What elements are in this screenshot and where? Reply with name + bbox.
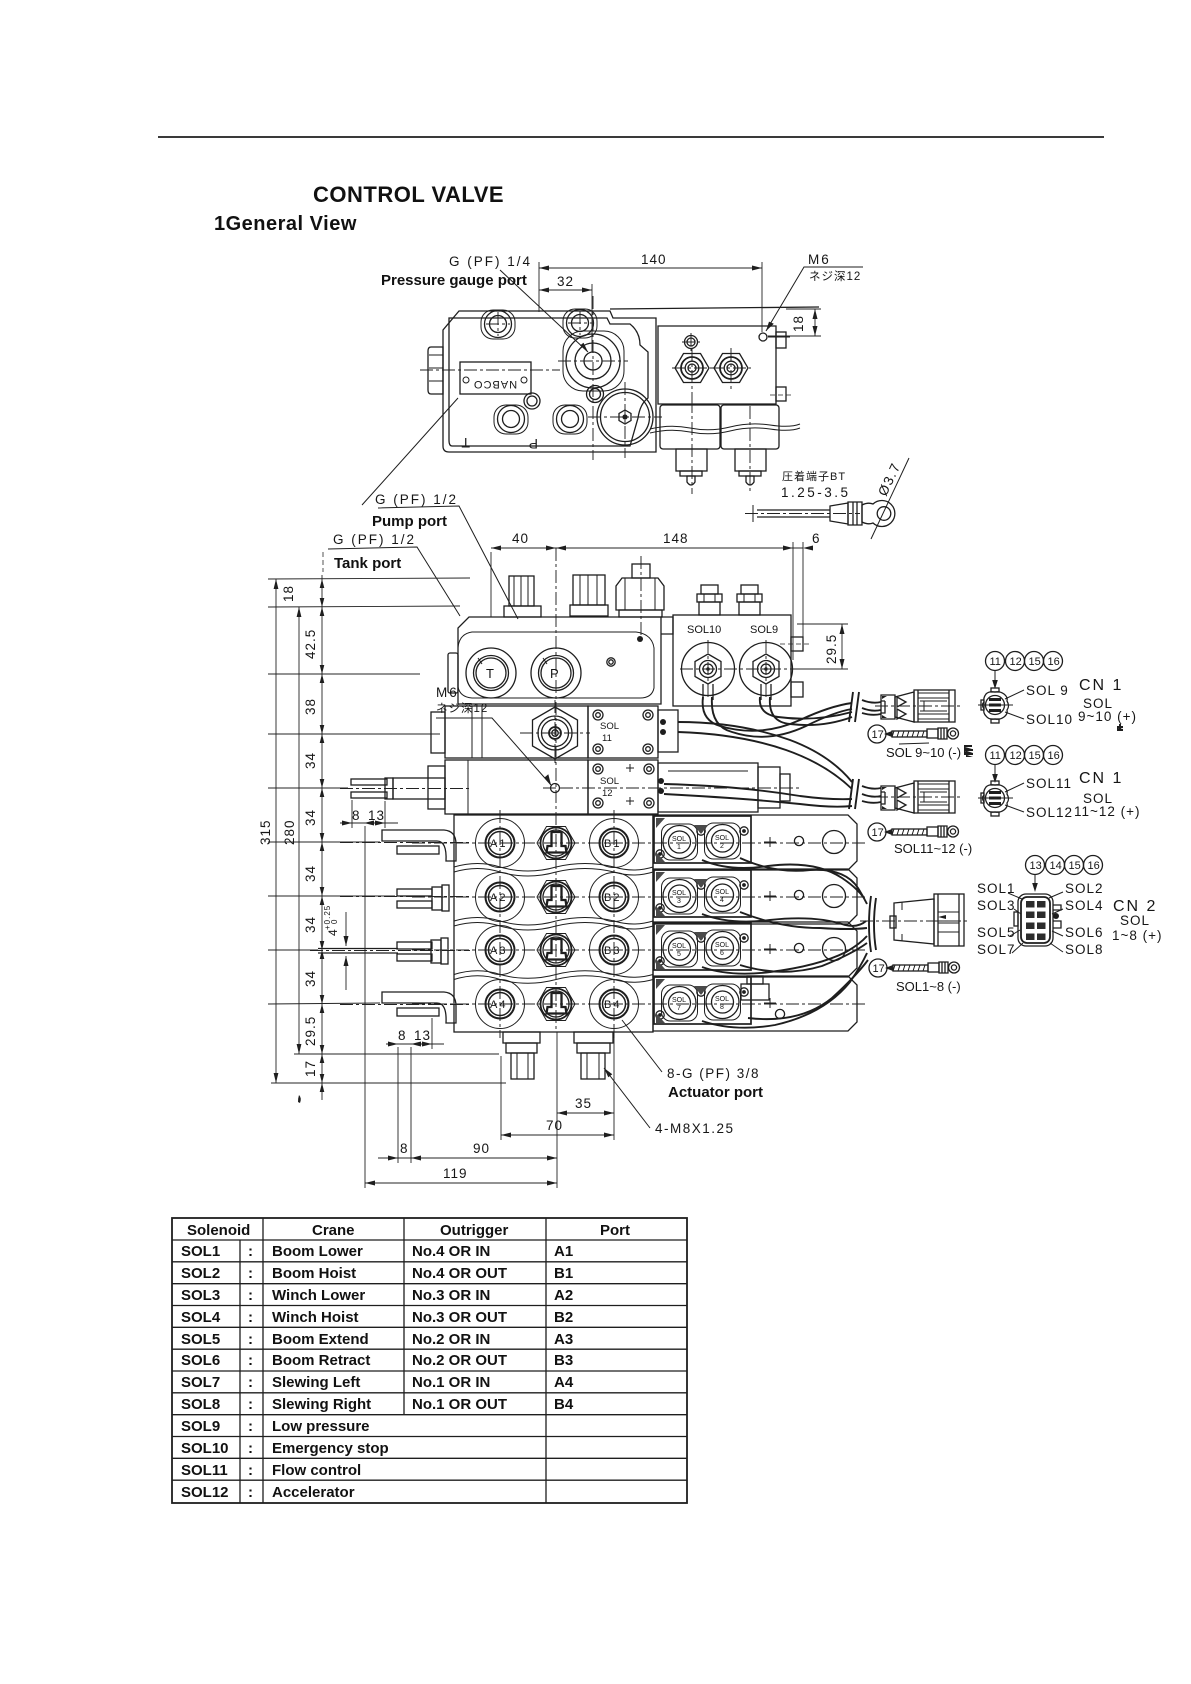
CN2 face <box>1018 894 1053 946</box>
big gear circle <box>597 389 653 445</box>
svg-text:6: 6 <box>812 531 821 546</box>
svg-text:A4: A4 <box>490 999 507 1011</box>
svg-text:No.4 OR IN: No.4 OR IN <box>412 1243 490 1260</box>
svg-text:G (PF) 1/2: G (PF) 1/2 <box>333 532 416 547</box>
svg-text:Winch Lower: Winch Lower <box>272 1287 365 1304</box>
port B1 <box>600 829 629 858</box>
sol10 label leader <box>1005 712 1024 719</box>
svg-text:Boom Retract: Boom Retract <box>272 1352 370 1369</box>
wires sol1/2 to plug3 <box>702 860 864 898</box>
dim 119 <box>365 1182 557 1184</box>
bolt pad top-right <box>563 309 597 338</box>
circled 11 12 15 16 a <box>986 652 1005 671</box>
svg-text:SOL: SOL <box>672 836 686 843</box>
solenoid side body left <box>660 405 720 449</box>
hex port H1 <box>675 354 709 383</box>
dim 4 tol <box>345 912 347 946</box>
svg-text:B3: B3 <box>554 1352 573 1369</box>
svg-text:NABCO: NABCO <box>473 378 517 390</box>
plug3 body <box>894 899 934 944</box>
CN1b face <box>983 785 1009 813</box>
svg-text::: : <box>248 1462 253 1479</box>
svg-text:No.4 OR OUT: No.4 OR OUT <box>412 1265 507 1282</box>
svg-text::: : <box>248 1331 253 1348</box>
CN1a face <box>983 692 1009 720</box>
bolt B2 <box>567 310 594 337</box>
svg-text:CN 1: CN 1 <box>1079 770 1123 787</box>
svg-text:16: 16 <box>1048 656 1060 668</box>
svg-text:9~10 (+): 9~10 (+) <box>1078 709 1137 724</box>
sol6 <box>705 930 741 966</box>
wires sol10 to plug1 <box>703 697 852 731</box>
svg-text:Tank port: Tank port <box>334 555 401 572</box>
svg-text:No.3 OR OUT: No.3 OR OUT <box>412 1309 507 1326</box>
svg-text:T: T <box>486 666 494 681</box>
svg-text:SOL: SOL <box>1120 913 1150 928</box>
bottom stud A <box>503 1032 540 1043</box>
lug b <box>884 829 892 835</box>
svg-text:Boom Hoist: Boom Hoist <box>272 1265 356 1282</box>
svg-text:SOL: SOL <box>672 890 686 897</box>
svg-text:SOL10: SOL10 <box>1026 712 1073 727</box>
svg-text:32: 32 <box>557 274 574 289</box>
M6 target hole <box>551 784 560 793</box>
svg-text:Port: Port <box>600 1222 630 1239</box>
svg-text:15: 15 <box>1069 860 1081 872</box>
svg-text:A4: A4 <box>554 1374 574 1391</box>
svg-text:SOL12: SOL12 <box>1026 805 1073 820</box>
bolt pad bottom-mid <box>553 405 587 434</box>
wires sol9 to plug1 <box>760 697 852 719</box>
rod A3 fork <box>397 942 432 949</box>
wire break marks <box>849 692 859 722</box>
svg-text:1.25-3.5: 1.25-3.5 <box>781 485 851 500</box>
hex fitting sol11 <box>533 707 578 759</box>
top view inner contour <box>449 318 648 446</box>
svg-text:No.1 OR OUT: No.1 OR OUT <box>412 1396 507 1413</box>
plug1 shell <box>914 690 955 722</box>
black dot <box>637 636 643 642</box>
rod A2 fork <box>397 889 432 896</box>
wires sol3/4 to plug3 <box>702 914 866 926</box>
circled 11 12 15 16 b <box>986 746 1005 765</box>
svg-text:11: 11 <box>990 750 1001 762</box>
svg-text:16: 16 <box>1088 860 1100 872</box>
chain arrows <box>320 579 325 1092</box>
gauge leader <box>500 270 588 352</box>
svg-text:A3: A3 <box>490 945 507 957</box>
small circle row2 <box>794 890 803 899</box>
svg-text:29.5: 29.5 <box>303 1016 318 1046</box>
bolt pad top-left <box>481 310 515 339</box>
svg-text:12: 12 <box>602 788 613 799</box>
small circle row1 <box>794 836 803 845</box>
stray tick <box>298 1095 301 1103</box>
dim 8 / 90 <box>378 1157 557 1159</box>
sol block row2 <box>653 869 857 924</box>
svg-text:SOL2: SOL2 <box>181 1265 220 1282</box>
row1 centerline <box>412 842 868 844</box>
bracket wedges row2 <box>656 872 708 916</box>
svg-text:P: P <box>550 666 559 681</box>
sol8 <box>705 984 741 1020</box>
sol12 right extension <box>658 763 758 812</box>
svg-text:12: 12 <box>1010 750 1022 762</box>
circle 17 b <box>868 823 886 841</box>
table outer frame <box>172 1218 687 1503</box>
svg-text:Winch Hoist: Winch Hoist <box>272 1309 359 1326</box>
svg-text:No.3 OR IN: No.3 OR IN <box>412 1287 490 1304</box>
svg-text:34: 34 <box>303 970 318 987</box>
pump leader <box>378 506 518 619</box>
big circle row3 <box>823 938 846 961</box>
actuator leader <box>622 1020 662 1072</box>
svg-text:SOL: SOL <box>672 997 686 1004</box>
dim 18 topview <box>814 309 816 336</box>
M6 leader <box>766 267 863 331</box>
solenoid bracket row2 <box>654 870 751 917</box>
svg-text::: : <box>248 1243 253 1260</box>
main block inner contour <box>458 632 654 698</box>
svg-text:17: 17 <box>873 963 885 975</box>
sol12 row left body <box>445 760 588 814</box>
svg-text:15: 15 <box>1029 656 1041 668</box>
svg-text:140: 140 <box>641 252 667 267</box>
CN2 pins <box>1026 901 1046 940</box>
sol9 stud <box>741 585 758 594</box>
svg-text:A1: A1 <box>490 838 507 850</box>
svg-text:34: 34 <box>303 752 318 769</box>
plug2 body <box>881 786 895 810</box>
centerlines sol9/10 <box>707 640 709 700</box>
svg-text::: : <box>248 1374 253 1391</box>
svg-text:A2: A2 <box>490 892 507 904</box>
svg-text:CN 1: CN 1 <box>1079 677 1123 694</box>
port B1 lobe <box>590 819 639 868</box>
svg-text:Outrigger: Outrigger <box>440 1222 508 1239</box>
CN2 leaders <box>1008 892 1063 953</box>
svg-text:Solenoid: Solenoid <box>187 1222 250 1239</box>
svg-text:5: 5 <box>677 951 681 958</box>
small plug <box>607 658 615 666</box>
plug2 shell <box>914 781 955 813</box>
port P <box>531 648 581 698</box>
bracket bolts row1 <box>697 827 705 835</box>
svg-text:315: 315 <box>258 819 273 845</box>
svg-text:34: 34 <box>303 865 318 882</box>
pressure gauge port circles <box>566 334 620 388</box>
svg-text:0: 0 <box>330 919 339 924</box>
sol block row4 <box>653 976 857 1031</box>
bundle fan arcs <box>869 896 876 952</box>
sol12 pins <box>658 778 664 784</box>
hex fitting top <box>616 578 664 610</box>
lug a <box>884 731 892 737</box>
svg-text:SOL9: SOL9 <box>750 624 778 636</box>
svg-text:18: 18 <box>281 585 296 602</box>
svg-text:280: 280 <box>282 819 297 845</box>
svg-text:Slewing Right: Slewing Right <box>272 1396 371 1413</box>
solenoid centerlines <box>691 400 693 494</box>
sol11 row left body <box>445 706 588 758</box>
bracket bolts row2 <box>697 881 705 889</box>
port A3 lobe <box>476 926 525 975</box>
solenoid lower cylinder left <box>676 449 707 471</box>
small circle row3 <box>794 943 803 952</box>
bolt B1 <box>485 311 512 338</box>
port B3 <box>600 936 629 965</box>
valve body rows outline <box>454 815 653 1032</box>
svg-text:P: P <box>529 436 538 452</box>
hex port H2 <box>714 354 748 383</box>
bolt pad bottom-left <box>494 405 528 434</box>
svg-text:13: 13 <box>1030 860 1042 872</box>
bracket bolts row3 <box>697 934 705 942</box>
svg-text:90: 90 <box>473 1141 490 1156</box>
svg-text:SOL6: SOL6 <box>181 1352 220 1369</box>
arrow down a <box>994 671 996 685</box>
svg-text:17: 17 <box>872 729 884 741</box>
svg-text:ネジ深12: ネジ深12 <box>809 269 861 283</box>
wires sol7/8 to plug3 <box>702 953 867 1028</box>
left stub mv <box>448 653 458 693</box>
svg-text:40: 40 <box>512 531 529 546</box>
wires sol11 to plug2 <box>678 722 852 782</box>
svg-text:13: 13 <box>368 808 385 823</box>
svg-text:SOL11: SOL11 <box>181 1462 228 1479</box>
poppet3 hex <box>537 934 575 967</box>
big circle row2 <box>823 885 846 908</box>
lug wire <box>757 509 830 511</box>
small hole top-left of right block <box>685 336 698 349</box>
dim line 40/148/6 <box>491 547 803 549</box>
svg-text:A3: A3 <box>554 1331 573 1348</box>
svg-text:SOL4: SOL4 <box>181 1309 221 1326</box>
row2 centerline <box>412 896 868 898</box>
solenoid bracket row4 <box>654 977 751 1024</box>
svg-text:G (PF) 1/2: G (PF) 1/2 <box>375 492 458 507</box>
port B4 lobe <box>590 980 639 1029</box>
m8 leader <box>604 1068 650 1128</box>
dim 29.5 <box>841 624 843 669</box>
svg-text:SOL10: SOL10 <box>181 1440 229 1457</box>
sol9 circle <box>740 643 793 696</box>
svg-text:SOL7: SOL7 <box>977 942 1016 957</box>
bracket bolts row4 <box>697 988 705 996</box>
svg-text:SOL3: SOL3 <box>181 1287 220 1304</box>
sol2 <box>705 823 741 859</box>
svg-text:M6: M6 <box>808 252 831 267</box>
bracket wedges row4 <box>656 979 708 1023</box>
svg-text::: : <box>248 1265 253 1282</box>
svg-text:Pump port: Pump port <box>372 513 447 530</box>
svg-text:No.2 OR OUT: No.2 OR OUT <box>412 1352 507 1369</box>
bracket wedges row3 <box>656 925 708 969</box>
port T <box>466 648 516 698</box>
svg-text:+0.25: +0.25 <box>323 905 332 930</box>
row4 bracket <box>741 984 769 1000</box>
svg-text:4: 4 <box>720 897 724 904</box>
table vertical lines <box>239 1240 241 1503</box>
dim 140 <box>539 267 762 269</box>
row4 centerline <box>412 1003 868 1005</box>
svg-text:14: 14 <box>1050 860 1062 872</box>
svg-text:B3: B3 <box>604 945 621 957</box>
sol7 <box>662 985 698 1021</box>
NABCO plate <box>460 362 531 394</box>
svg-text:11~12 (+): 11~12 (+) <box>1074 804 1141 819</box>
svg-text:圧着端子BT: 圧着端子BT <box>782 469 846 483</box>
right block edge tabs <box>776 332 786 348</box>
harness wavy line across <box>650 424 800 430</box>
svg-text:119: 119 <box>443 1166 468 1181</box>
svg-text:SOL11: SOL11 <box>1026 776 1072 791</box>
left side stub port <box>428 347 443 394</box>
bolt B4 <box>557 406 584 433</box>
svg-text:SOL1~8 (-): SOL1~8 (-) <box>896 979 961 994</box>
sol5 <box>662 931 698 967</box>
svg-text:8: 8 <box>400 1141 409 1156</box>
svg-text:SOL: SOL <box>715 996 729 1003</box>
bolt B3 <box>498 406 525 433</box>
svg-text:7: 7 <box>677 1005 681 1012</box>
solenoid side body right <box>721 405 779 449</box>
svg-text:CONTROL VALVE: CONTROL VALVE <box>313 182 504 207</box>
svg-text:Boom Lower: Boom Lower <box>272 1243 363 1260</box>
svg-text:Accelerator: Accelerator <box>272 1484 355 1501</box>
svg-text:34: 34 <box>303 809 318 826</box>
CN2 tabs <box>1053 905 1061 928</box>
wire break marks b <box>849 779 859 809</box>
svg-text:11: 11 <box>602 733 612 744</box>
dia 3.7 leader <box>871 458 909 539</box>
svg-text:SOL9: SOL9 <box>181 1418 220 1435</box>
svg-text:SOL6: SOL6 <box>1065 925 1104 940</box>
svg-text:Slewing Left: Slewing Left <box>272 1374 360 1391</box>
big circle row1 <box>823 831 846 854</box>
top view main body outline <box>443 311 656 452</box>
tank leader <box>328 547 460 616</box>
svg-text:B4: B4 <box>554 1396 574 1413</box>
svg-text:70: 70 <box>546 1118 563 1133</box>
solenoid lower cylinder right <box>735 449 766 471</box>
svg-text:SOL1: SOL1 <box>181 1243 220 1260</box>
circle 17 a <box>868 725 886 743</box>
sol9 label leader <box>1005 690 1024 699</box>
sol12 block <box>588 760 658 814</box>
svg-text:SOL12: SOL12 <box>181 1484 229 1501</box>
svg-text:Crane: Crane <box>312 1222 355 1239</box>
svg-text:B1: B1 <box>554 1265 573 1282</box>
small bolt mid <box>524 393 540 409</box>
row separators <box>454 864 653 872</box>
table horizontal lines <box>172 1239 687 1241</box>
svg-text:SOL3: SOL3 <box>977 898 1016 913</box>
wires sol12 to plug2 <box>664 784 852 799</box>
port A2 lobe <box>476 873 525 922</box>
centerline through stub <box>420 369 560 371</box>
gauge port boss <box>563 331 624 391</box>
svg-text:SOL2: SOL2 <box>1065 881 1104 896</box>
svg-text:4-M8X1.25: 4-M8X1.25 <box>655 1121 735 1136</box>
svg-text:42.5: 42.5 <box>303 629 318 659</box>
lug crimp barrel <box>830 503 848 524</box>
svg-text:Flow control: Flow control <box>272 1462 361 1479</box>
plug1 body <box>881 695 895 719</box>
sol11 pins <box>658 710 678 752</box>
svg-text:SOL8: SOL8 <box>1065 942 1104 957</box>
sol11 label leader <box>1005 783 1024 792</box>
svg-text:Actuator port: Actuator port <box>668 1084 763 1101</box>
svg-text:B1: B1 <box>604 838 621 850</box>
svg-text:SOL: SOL <box>672 943 686 950</box>
block right tabs <box>791 637 803 651</box>
svg-text:T: T <box>461 435 470 451</box>
svg-text:8: 8 <box>720 1004 724 1011</box>
svg-text:13: 13 <box>414 1028 431 1043</box>
svg-text::: : <box>248 1484 253 1501</box>
port B4 <box>600 990 629 1019</box>
sol3 <box>662 878 698 914</box>
svg-text:G (PF) 1/4: G (PF) 1/4 <box>449 254 532 269</box>
NABCO leader <box>362 398 458 505</box>
svg-text:M6: M6 <box>436 685 459 700</box>
svg-text:No.2 OR IN: No.2 OR IN <box>412 1331 490 1348</box>
wires sol5/6 to plug3 <box>702 936 867 974</box>
svg-text:Emergency stop: Emergency stop <box>272 1440 389 1457</box>
svg-text:B4: B4 <box>604 999 621 1011</box>
port B3 lobe <box>590 926 639 975</box>
svg-text:148: 148 <box>663 531 689 546</box>
sol12 label leader <box>1005 805 1024 812</box>
svg-text:Low pressure: Low pressure <box>272 1418 370 1435</box>
svg-text:SOL7: SOL7 <box>181 1374 220 1391</box>
svg-text:16: 16 <box>1048 750 1060 762</box>
dim 35 <box>557 1112 614 1114</box>
svg-text::: : <box>248 1309 253 1326</box>
svg-text:1~8 (+): 1~8 (+) <box>1112 928 1163 943</box>
svg-text:A2: A2 <box>554 1287 573 1304</box>
svg-text:18: 18 <box>791 315 806 332</box>
lug c <box>885 965 893 971</box>
svg-text:17: 17 <box>872 827 884 839</box>
svg-text:SOL8: SOL8 <box>181 1396 220 1413</box>
stamp left b <box>964 745 972 755</box>
solenoid bracket row1 <box>654 816 751 863</box>
svg-text:SOL: SOL <box>715 942 729 949</box>
svg-text:6: 6 <box>720 950 724 957</box>
svg-text:12: 12 <box>1010 656 1022 668</box>
svg-text:34: 34 <box>303 916 318 933</box>
dim 32 <box>539 289 592 291</box>
sol block row3 <box>653 922 857 977</box>
sol10 circle <box>682 643 735 696</box>
svg-text:17: 17 <box>303 1060 318 1077</box>
sol11 block <box>588 706 658 758</box>
port B2 lobe <box>590 873 639 922</box>
svg-text::: : <box>248 1440 253 1457</box>
dim chain 280 <box>298 607 300 1054</box>
dim 70 <box>501 1134 614 1136</box>
svg-text:2: 2 <box>720 843 724 850</box>
gauge centerlines <box>558 360 628 362</box>
svg-text:SOL4: SOL4 <box>1065 898 1104 913</box>
svg-text:35: 35 <box>575 1096 592 1111</box>
svg-text:SOL: SOL <box>715 889 729 896</box>
bracket A1 <box>382 830 456 861</box>
svg-text:A1: A1 <box>554 1243 573 1260</box>
svg-text:SOL10: SOL10 <box>687 624 721 636</box>
